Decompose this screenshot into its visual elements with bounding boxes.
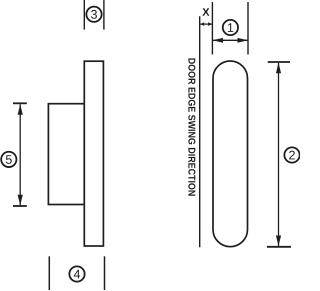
dim 3 extension line right <box>103 0 105 30</box>
slot stadium front view <box>213 61 248 247</box>
dim 4 extension line right <box>104 256 106 290</box>
cup body side view <box>48 104 84 205</box>
callout circle 3 <box>86 7 101 22</box>
label X <box>202 8 209 16</box>
dim 5 top tick <box>13 102 27 104</box>
dim X arrow <box>200 22 212 26</box>
dim 5 bottom tick <box>13 205 27 207</box>
callout circle 4 <box>69 266 84 281</box>
dim 3 extension line left <box>83 0 85 30</box>
dim 5 arrow down <box>18 195 23 206</box>
dim 2 top tick <box>268 61 290 63</box>
door edge swing direction text <box>188 58 195 195</box>
dim 2 bottom tick <box>267 246 291 248</box>
dim 2 line <box>278 63 280 246</box>
dim 2 arrow down <box>276 236 281 247</box>
callout circle 2 <box>284 147 299 162</box>
door edge line <box>199 16 201 247</box>
edge plate side view <box>84 61 103 246</box>
dim 5 line <box>19 104 21 205</box>
dim 1 arrow <box>213 38 249 43</box>
dim 4 extension line left <box>48 256 50 290</box>
callout circle 1 <box>223 20 238 35</box>
dim 1 extension line left <box>211 2 213 55</box>
dim 1 extension line right <box>247 2 249 55</box>
dim 2 arrow up <box>276 63 281 74</box>
callout circle 5 <box>1 152 16 167</box>
dim 5 arrow up <box>18 104 23 115</box>
